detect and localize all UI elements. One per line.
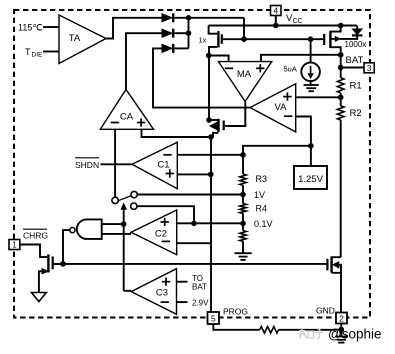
wire VCC rail: [209, 25, 357, 27]
wire NAND bottom input from C2 output: [102, 233, 131, 235]
wire MA output to M1 gate: [225, 102, 245, 127]
wire diode bus vertical: [188, 18, 190, 49]
svg-text:GND: GND: [316, 306, 335, 316]
node diode bus junction dots: [186, 15, 192, 21]
resistor Rprog external: [260, 327, 279, 333]
wire C2 plus to 0.1V tap: [177, 222, 243, 224]
wire VA minus to 1.25V node: [296, 117, 311, 146]
svg-text:5uA: 5uA: [284, 65, 297, 74]
svg-text:C3: C3: [156, 288, 168, 299]
svg-text:R4: R4: [256, 204, 268, 214]
op-amp VA: [250, 84, 296, 132]
node 1V tap: [242, 185, 244, 203]
wire CA minus input down to switch: [114, 129, 116, 197]
svg-text:R1: R1: [350, 81, 362, 92]
svg-text:PROG: PROG: [223, 307, 248, 317]
pin 5 PROG: [208, 312, 220, 324]
logic gate NAND: [77, 219, 102, 239]
wire switch bottom contact to 0.1V line: [137, 206, 194, 223]
watermark: [299, 328, 324, 340]
svg-text:1x: 1x: [199, 36, 207, 45]
transistor M2 divider disconnect NMOS: [326, 259, 328, 271]
svg-text:5: 5: [211, 314, 216, 324]
wire NAND output to gate rail: [63, 230, 70, 264]
ground under 5uA: [310, 81, 312, 85]
pin 4 VCC: [275, 16, 277, 26]
wire PROG pin to external resistor: [213, 324, 259, 330]
node R1/R2 junction: [340, 93, 342, 106]
wire switch top contact to 1V tap: [137, 194, 243, 196]
pin 1 CHRG: [9, 240, 20, 250]
svg-text:R3: R3: [256, 174, 268, 184]
wire CA plus input to PROG node: [142, 129, 214, 137]
svg-text:2: 2: [339, 313, 344, 323]
wire D3 cathode to bus: [174, 47, 188, 49]
wire PROG vertical: [210, 137, 212, 312]
wire CHRG pin to M3 drain: [20, 245, 49, 258]
comparator C2: [131, 210, 177, 255]
wire D1 cathode to gate-rail drop: [174, 17, 244, 19]
svg-text:1.25V: 1.25V: [298, 174, 323, 185]
node BAT junction: [338, 52, 344, 58]
wire external resistor to GND pin: [279, 324, 342, 330]
diode D2: [162, 29, 172, 37]
wire MA gate rail: [223, 38, 323, 40]
wire BAT vertical upper: [340, 55, 342, 78]
chip boundary dashed border: [14, 10, 370, 318]
resistor R1: [337, 78, 344, 93]
svg-text:T: T: [25, 47, 31, 57]
pin 2 GND: [336, 313, 347, 324]
resistor R3: [242, 155, 244, 174]
wire BAT to MA plus input: [261, 55, 341, 62]
wire CA output to diode D2: [126, 33, 162, 89]
svg-text:2.9V: 2.9V: [192, 299, 209, 308]
svg-text:4: 4: [274, 7, 279, 16]
diode D1: [162, 14, 172, 22]
svg-text:TA: TA: [69, 33, 81, 44]
wire gate-rail drop: [243, 18, 245, 39]
node 1x drain / MA- junction: [206, 53, 212, 59]
svg-text:CA: CA: [120, 112, 134, 123]
transistor Q1 1x PMOS: [209, 26, 218, 34]
svg-text:VA: VA: [275, 102, 288, 113]
op-amp CA: [100, 89, 153, 129]
svg-text:DIE: DIE: [32, 52, 44, 59]
current source I1 5uA: [310, 39, 312, 62]
svg-text:115℃: 115℃: [18, 23, 42, 33]
wire C1 minus to R3 top: [177, 154, 243, 156]
transistor M1 sense FET: [208, 56, 210, 121]
switch S1 mode select: [112, 197, 118, 203]
ground at GND pin: [340, 330, 342, 337]
diode D4 body diode of 1000x: [356, 26, 358, 30]
svg-text:1: 1: [12, 241, 17, 250]
diode D3: [162, 44, 172, 52]
wire C1 plus to PROG: [177, 173, 211, 175]
svg-text:BAT: BAT: [192, 283, 207, 292]
svg-text:C2: C2: [155, 229, 167, 240]
wire VA plus to R1/R2 junction: [296, 96, 341, 98]
svg-text:@sophie: @sophie: [328, 327, 382, 342]
wire D2 cathode to bus: [174, 32, 188, 34]
node TDIE input: [43, 51, 59, 53]
svg-text:R2: R2: [350, 108, 362, 119]
node TO BAT input of C3: [177, 281, 188, 283]
wire R2 down to M2 drain: [340, 120, 342, 257]
resistor R4: [240, 204, 246, 214]
transistor M4 1000x PMOS: [323, 34, 325, 45]
svg-text:CHRG: CHRG: [23, 231, 48, 241]
op-amp TA: [59, 15, 106, 64]
wire C2 minus to PROG: [177, 242, 211, 244]
node R3 top junction: [240, 152, 246, 158]
ground triangle under M3: [32, 293, 47, 302]
svg-text:0.1V: 0.1V: [254, 219, 273, 229]
node 2.9V input of C3: [177, 301, 188, 303]
svg-text:BAT: BAT: [346, 55, 364, 66]
comparator C3: [131, 269, 176, 315]
svg-text:MA: MA: [237, 69, 252, 80]
wire NAND top input: [102, 223, 124, 225]
svg-text:SHDN: SHDN: [75, 160, 99, 170]
svg-text:C1: C1: [157, 160, 169, 171]
arrow switch control from C3: [121, 204, 126, 210]
svg-text:1000x: 1000x: [345, 40, 367, 49]
ground under divider: [242, 241, 244, 253]
svg-text:3: 3: [367, 64, 372, 73]
op-amp MA: [219, 62, 272, 102]
transistor M3 CHRG open-drain NMOS: [47, 254, 49, 272]
wire C3 output up to switch arrow: [124, 290, 132, 292]
wire TA output to diode D1: [106, 18, 162, 39]
wire 1x drain to MA minus input: [209, 56, 229, 62]
node PROG top junction: [208, 134, 214, 140]
node 115C input: [43, 26, 59, 28]
resistor R5 bottom of divider: [240, 231, 246, 242]
svg-text:1V: 1V: [254, 190, 265, 200]
wire logic low rail: [54, 263, 327, 265]
node VA-/1.25V junction: [308, 143, 314, 149]
resistor R2: [337, 106, 344, 120]
pin 3 BAT: [338, 65, 344, 71]
wire VA output to diode D3: [153, 48, 250, 107]
node 0.1V tap: [242, 214, 244, 231]
voltage reference 1.25V box: [310, 146, 312, 166]
wire reference node to R3 top: [243, 146, 311, 155]
comparator C1: [132, 142, 177, 189]
svg-text:CC: CC: [293, 18, 303, 25]
